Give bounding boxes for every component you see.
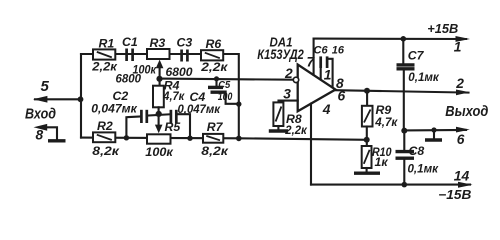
op-amp U1 DA1 triangle: [298, 65, 336, 112]
svg-text:−15В: −15В: [438, 188, 471, 202]
ground input shield: [48, 139, 66, 142]
wire pin4 supply: [310, 104, 312, 185]
wire decoupling mid vertical: [403, 70, 405, 131]
wire output pin6: [336, 90, 469, 92]
wire R4 to R5 wiper arrow: [158, 107, 160, 127]
wire +15V rail: [314, 38, 466, 41]
svg-text:0,1мк: 0,1мк: [408, 162, 439, 176]
svg-text:С1: С1: [122, 35, 138, 49]
svg-text:С8: С8: [409, 144, 425, 158]
svg-text:100к: 100к: [145, 145, 173, 159]
resistor R2: [93, 132, 115, 142]
node wiper branch junction: [156, 76, 162, 82]
svg-text:Вход: Вход: [25, 106, 56, 122]
svg-text:16: 16: [332, 44, 345, 56]
svg-text:С6: С6: [314, 44, 329, 56]
svg-text:С7: С7: [408, 49, 425, 63]
input arrow 5: [33, 96, 47, 103]
svg-text:С3: С3: [177, 36, 193, 50]
input arrow 8: [34, 124, 48, 131]
svg-text:4: 4: [322, 102, 331, 117]
node C8 rail junction: [402, 182, 408, 188]
wire input terminal 5: [35, 98, 81, 100]
ground output common: [433, 130, 435, 138]
resistor R5 potentiometer: [147, 134, 171, 143]
resistor R8: [273, 102, 283, 126]
svg-text:4,7к: 4,7к: [162, 89, 185, 103]
wire R3 wiper arrow: [159, 66, 161, 86]
capacitor C7: [402, 39, 404, 64]
node wiper cross junction: [156, 111, 162, 117]
wire output common 6 line: [404, 129, 466, 132]
svg-text:5: 5: [41, 78, 50, 95]
node C5 lower junction: [236, 101, 241, 106]
svg-text:К153УД2: К153УД2: [257, 47, 304, 62]
svg-text:+15В: +15В: [427, 22, 458, 36]
svg-text:0,047мк: 0,047мк: [91, 101, 137, 115]
resistor R6: [201, 50, 223, 60]
capacitor C6: [319, 56, 322, 68]
svg-text:3: 3: [283, 86, 291, 101]
svg-text:2,2к: 2,2к: [91, 60, 117, 74]
svg-text:R2: R2: [97, 119, 113, 133]
arrow output 6 terminal: [456, 127, 470, 133]
svg-text:7: 7: [307, 54, 316, 69]
svg-text:С5: С5: [218, 79, 230, 91]
svg-text:1: 1: [324, 67, 332, 82]
svg-text:R6: R6: [206, 37, 222, 51]
svg-text:R1: R1: [99, 36, 115, 50]
svg-text:R5: R5: [165, 120, 181, 134]
svg-text:6800: 6800: [166, 65, 193, 79]
node decoupling mid junction: [401, 128, 407, 134]
node C4 rail junction: [187, 136, 192, 141]
wire C6 pin1 lead: [320, 68, 322, 79]
capacitor C2: [140, 110, 143, 123]
resistor R9: [366, 91, 368, 106]
node C2 rail junction: [124, 135, 129, 140]
svg-text:100: 100: [218, 91, 233, 103]
svg-text:100к: 100к: [133, 63, 157, 77]
wire input terminal 8: [39, 127, 57, 139]
capacitor C8: [403, 131, 405, 150]
svg-text:6: 6: [338, 88, 346, 103]
svg-text:8,2к: 8,2к: [92, 144, 119, 158]
capacitor C5: [215, 79, 217, 86]
svg-text:6: 6: [457, 132, 465, 147]
node R9 tap junction: [364, 88, 370, 94]
ground R10: [366, 168, 368, 171]
arrow output 2 terminal: [456, 90, 470, 96]
svg-text:R7: R7: [207, 120, 224, 134]
svg-text:2,2к: 2,2к: [200, 60, 228, 74]
svg-text:2: 2: [455, 76, 464, 91]
wire pin3: [279, 101, 298, 103]
svg-text:0,1мк: 0,1мк: [408, 70, 439, 84]
wire R9 R10 junction: [366, 127, 368, 147]
wire C2 branch from rail: [126, 117, 140, 138]
wire C6 pin8 lead: [327, 59, 333, 87]
node pin2 inversion bubble: [293, 77, 298, 82]
wire pin7 supply: [313, 39, 315, 75]
capacitor C3: [180, 50, 183, 62]
svg-text:2: 2: [284, 66, 293, 81]
resistor R10: [362, 146, 372, 168]
svg-text:8: 8: [36, 128, 44, 143]
svg-text:14: 14: [454, 169, 470, 184]
svg-text:4,7к: 4,7к: [374, 115, 398, 129]
resistor R3 potentiometer: [147, 49, 170, 59]
svg-text:R3: R3: [150, 36, 166, 50]
arrow -15V terminal: [458, 182, 473, 188]
node feedback rail junction: [236, 136, 242, 142]
svg-text:1: 1: [454, 39, 462, 54]
node feedback divider junction: [364, 137, 370, 143]
wire bottom rail R2 R5 R7 feedback: [81, 138, 367, 140]
svg-text:1к: 1к: [375, 155, 389, 169]
wire inverting input net wiper to pin2: [160, 79, 293, 80]
capacitor C1: [125, 49, 128, 62]
node C7 rail junction: [401, 36, 407, 42]
svg-text:8,2к: 8,2к: [201, 144, 228, 158]
capacitor C4: [170, 110, 173, 123]
node input junction: [78, 96, 84, 102]
arrow +15V terminal: [456, 36, 471, 42]
wire C2 to C4 link: [148, 114, 170, 115]
wire left input vertical: [80, 54, 82, 138]
wire top rail input to R6 corner down to feedback node: [81, 54, 239, 138]
resistor R1: [93, 49, 115, 59]
svg-text:Выход: Выход: [445, 103, 488, 120]
resistor R7: [203, 134, 223, 143]
wire -15V rail: [311, 184, 470, 186]
resistor R4: [153, 86, 164, 108]
svg-text:0,047мк: 0,047мк: [178, 102, 221, 116]
wire C4 branch to rail: [178, 114, 191, 138]
ground R8: [277, 126, 279, 130]
